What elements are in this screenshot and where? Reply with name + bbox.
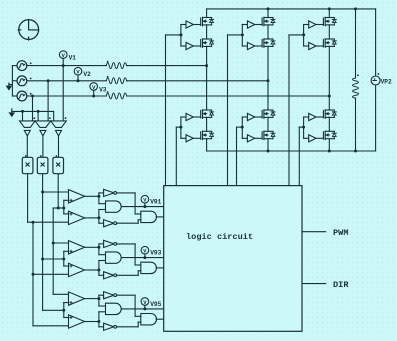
svg-text:VP2: VP2 (381, 78, 392, 85)
wire: comp U6 output split (85, 312, 106, 327)
resistor R3 on phase line 3 + wire (27, 91, 329, 99)
limiter block LIM2 (37, 155, 48, 174)
wire: logic drive to bottom cell 1 (176, 126, 182, 186)
limiter block LIM1 (22, 155, 33, 174)
buffer B5 (gate driver) (304, 21, 316, 28)
wire: top cell 1 gate riser (180, 25, 182, 47)
voltage sensor VSEN1 (trapezoid + output arrow) (20, 111, 36, 157)
MOSFET Q1 (193, 17, 213, 26)
inverter N2 (104, 220, 117, 227)
comparator U4 (69, 263, 85, 276)
voltage probe V2 (74, 67, 91, 82)
AND gate A3 (106, 252, 122, 263)
resistor R1 on phase line 1 + wire (27, 61, 207, 69)
wire: logic drive to top cell 1 (166, 33, 183, 185)
DC source VP2 (371, 9, 392, 151)
MOSFET Q8 (193, 131, 213, 140)
buffer B6 (gate driver) (304, 42, 316, 49)
inverter N1 (104, 189, 117, 196)
wire: logic drive to bottom cell 3 (299, 126, 305, 186)
wire: group2 comparator cross-connect (62, 251, 68, 266)
svg-text:DIR: DIR (333, 280, 349, 290)
wire: bottom cell 3 gate riser (303, 117, 305, 138)
resistor R4 (load) (353, 9, 359, 151)
wire: bus from LIM3 output (57, 174, 60, 210)
MOSFET Q2 (193, 39, 213, 48)
buffer B7 (gate driver) (181, 113, 193, 120)
voltage probe V95 (141, 298, 162, 311)
wire: logic drive to top cell 2 (228, 33, 244, 185)
wire: column 2 switch chain (267, 9, 270, 151)
comparator U1 (69, 190, 85, 203)
inverter N4 (104, 272, 117, 279)
wire: N5 out to A6 in1 (116, 295, 140, 316)
comparator U3 (69, 241, 85, 254)
resistor R2 on phase line 2 + wire (27, 76, 268, 84)
wire: top cell 3 gate riser (303, 25, 305, 47)
AND gate A1 (106, 201, 122, 212)
svg-text:V1: V1 (69, 55, 77, 62)
AND gate A6 (141, 314, 157, 325)
svg-text:PWM: PWM (333, 228, 348, 238)
PWM output pin (302, 228, 348, 238)
wire: bottom DC rail (207, 150, 376, 153)
buffer B1 (gate driver) (181, 21, 193, 28)
ground G1 (source neutral) (7, 83, 13, 90)
wire: mid bus (x=53.2) to comp3/comp5 (52, 208, 69, 294)
wire: comp U3 output split (85, 244, 106, 255)
comparator U6 (69, 315, 85, 328)
wire: top cell 2 gate riser (241, 25, 243, 47)
wire: logic drive to top cell 3 (289, 33, 305, 185)
wire: A5 output to logic circuit (122, 308, 164, 310)
wire: comp U2 output split (85, 210, 106, 224)
wire: tap line3 to sensor S1 (31, 95, 34, 121)
wire: column 1 switch chain (205, 9, 208, 151)
wire: comp U5 output split (85, 295, 106, 306)
svg-text:V95: V95 (150, 301, 161, 308)
inverter N3 (104, 240, 117, 247)
MOSFET Q12 (316, 131, 336, 140)
svg-text:V3: V3 (99, 86, 107, 93)
svg-text:V93: V93 (150, 250, 161, 257)
wire: bottom cell 2 gate riser (241, 117, 243, 138)
AND gate A2 (141, 211, 157, 222)
MOSFET Q11 (316, 110, 336, 119)
wire: N4 out to A4 in2 (116, 271, 140, 276)
AC source VS1 (phase 1) (12, 61, 31, 71)
MOSFET Q9 (255, 110, 275, 119)
voltage probe V93 (141, 246, 162, 259)
limiter block LIM3 (53, 155, 64, 174)
voltage probe V3 (90, 83, 107, 98)
voltage probe V1 (59, 51, 76, 67)
inverter N5 (104, 292, 117, 299)
wire: bus1 branch down (x=33) (32, 222, 69, 326)
buffer B10 (gate driver) (242, 135, 254, 142)
wire: A1 output to logic circuit (122, 206, 164, 208)
wire: tap line1 (under V1) to sensor S3 (62, 66, 64, 121)
AC source VS3 (phase 3) (12, 91, 31, 101)
DIR output pin (302, 280, 349, 290)
MOSFET Q7 (193, 110, 213, 119)
buffer B9 (gate driver) (242, 113, 254, 120)
decor clock icon (18, 20, 38, 40)
buffer B2 (gate driver) (181, 42, 193, 49)
wire: N1 out to A2 in1 (116, 193, 140, 214)
wire: top DC rail (207, 7, 376, 10)
wire: comp U1 output split (85, 193, 106, 204)
voltage sensor VSEN3 (trapezoid + output arrow) (51, 111, 67, 157)
AND gate A5 (106, 303, 122, 314)
buffer B8 (gate driver) (181, 135, 193, 142)
wire: N6 out to A6 in2 (116, 322, 140, 327)
ground G2 (sensor reference) (10, 109, 54, 116)
comparator U2 (69, 211, 85, 224)
wire: N2 out to A2 in2 (116, 220, 140, 223)
wire: comp U4 output split (85, 261, 106, 276)
wire: group2 H feed (43, 258, 64, 260)
wire: group1 comparator cross-connect (62, 200, 68, 214)
buffer B11 (gate driver) (304, 113, 316, 120)
wire: logic drive to bottom cell 2 (237, 126, 244, 186)
wire: N3 out to A4 in1 (116, 244, 140, 265)
voltage sensor VSEN2 (trapezoid + output arrow) (35, 111, 51, 157)
inverter N6 (104, 323, 117, 330)
voltage probe V91 (141, 195, 162, 208)
wire: A3 output to logic circuit (122, 257, 164, 259)
wire: tap line2 to sensor S2 (47, 79, 50, 121)
wire: bus from LIM2 output (41, 174, 68, 311)
logic circuit block U10 (164, 186, 302, 332)
MOSFET Q10 (255, 131, 275, 140)
wire: A6 output to logic circuit (156, 318, 164, 320)
wire: bus from LIM1 output (28, 174, 69, 224)
wire: column 3 switch chain (328, 9, 331, 151)
wire: group1 H feed (53, 207, 64, 209)
buffer B12 (gate driver) (304, 135, 316, 142)
wire: A2 output to logic circuit (156, 216, 164, 218)
MOSFET Q4 (255, 39, 275, 48)
AND gate A4 (141, 262, 157, 273)
wire: AC source left bus (11, 66, 13, 96)
svg-text:V91: V91 (150, 199, 161, 206)
wire: A4 output to logic circuit (156, 267, 164, 269)
buffer B4 (gate driver) (242, 42, 254, 49)
svg-text:logic circuit: logic circuit (186, 232, 253, 242)
AC source VS2 (phase 2) (12, 76, 31, 86)
MOSFET Q3 (255, 17, 275, 26)
wire: bottom cell 1 gate riser (180, 117, 182, 138)
comparator U5 (69, 292, 85, 305)
wire: group3 comparator cross-connect (62, 303, 68, 318)
svg-text:V2: V2 (83, 71, 91, 78)
MOSFET Q5 (316, 17, 336, 26)
MOSFET Q6 (316, 39, 336, 48)
buffer B3 (gate driver) (242, 21, 254, 28)
